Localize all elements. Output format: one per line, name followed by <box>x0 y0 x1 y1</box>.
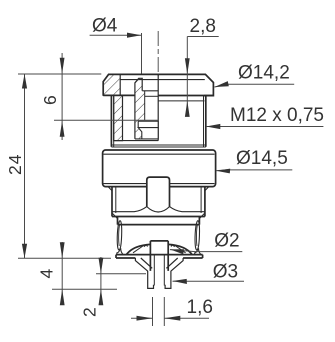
leader Ø14,5 <box>216 169 292 172</box>
thread bottom lines <box>111 144 205 146</box>
dim 2,8 lower arrow <box>185 101 190 117</box>
contact step bottom <box>135 138 158 140</box>
svg-text:24: 24 <box>5 154 25 175</box>
pin tube Ø3 right wall <box>165 271 171 288</box>
contact step 1 <box>138 121 158 127</box>
head secondary edge line <box>120 79 205 81</box>
svg-text:Ø14,5: Ø14,5 <box>236 148 288 169</box>
head top face <box>103 74 213 95</box>
right spring inner line <box>196 224 197 246</box>
section A corner chamfers <box>108 187 209 219</box>
dim 2 bottom arrow <box>99 289 104 305</box>
internal floor <box>114 140 159 142</box>
dome right arc <box>168 244 192 254</box>
pin tube Ø3 left wall <box>148 271 154 288</box>
svg-text:2: 2 <box>80 306 100 317</box>
flange inner top edge <box>104 153 215 155</box>
svg-text:M12 x 0,75: M12 x 0,75 <box>230 105 324 126</box>
leader Ø14,2 arrow <box>215 81 229 87</box>
leader Ø14,2 <box>215 84 295 87</box>
svg-text:Ø14,2: Ø14,2 <box>238 63 290 84</box>
head underside <box>103 94 135 96</box>
dim 4 bottom arrow <box>60 289 65 305</box>
svg-text:6: 6 <box>40 94 60 105</box>
head bottom right half <box>158 95 213 97</box>
dim 2 line <box>100 257 102 305</box>
leader M12 <box>206 126 323 128</box>
svg-text:Ø4: Ø4 <box>92 16 118 37</box>
leader Ø14,5 arrow <box>216 169 230 174</box>
dim 1,6 extension lines <box>152 297 154 326</box>
dim 2,8 vertical line <box>186 37 188 117</box>
leader M12 arrow <box>206 124 220 129</box>
funnel right <box>166 258 183 271</box>
lower body section A <box>112 187 205 217</box>
dim Ø4 arrow <box>127 33 141 38</box>
leader Ø3 arrow <box>173 279 187 284</box>
sleeve section (hatched) <box>135 78 145 139</box>
dim 6 top arrow <box>60 58 65 74</box>
dim 2 top arrow <box>99 258 104 274</box>
contact step 2 <box>138 128 158 139</box>
centerline <box>157 31 159 76</box>
right spring foot <box>195 248 201 254</box>
dim 24 bottom extension line <box>18 257 111 259</box>
bore lower wall <box>144 91 146 121</box>
svg-text:Ø2: Ø2 <box>214 231 239 252</box>
dim 4 line <box>61 242 63 305</box>
leader Ø2 <box>170 250 242 252</box>
left spring lamella <box>117 221 121 250</box>
dim 6 ref line <box>54 119 158 121</box>
leader Ø2 arrow <box>170 249 184 254</box>
flange inner bottom edge <box>104 183 215 185</box>
dim 2,8 label underline <box>187 36 218 38</box>
leader Ø3 <box>173 280 245 282</box>
dim 1,6 left arrow <box>137 316 153 321</box>
left spring inner line <box>119 224 120 246</box>
thread relief line <box>158 100 204 102</box>
dim Ø4 line <box>90 34 142 36</box>
svg-text:Ø3: Ø3 <box>213 262 238 283</box>
sleeve outline <box>135 78 142 139</box>
dim 24 bottom arrow <box>22 244 27 259</box>
dim 24 top extension line <box>18 73 101 75</box>
thread right lines <box>205 96 207 147</box>
right spring lamella <box>195 221 199 250</box>
bottom plate <box>116 255 203 258</box>
dim 24 top arrow <box>22 74 27 89</box>
head flange section (hatched) <box>103 74 120 95</box>
lower body section B <box>118 217 200 225</box>
svg-text:4: 4 <box>37 268 57 279</box>
pin stem Ø2 <box>150 241 168 271</box>
dim 2 ref line <box>96 273 146 275</box>
dim 4/2 bottom ref line <box>52 288 117 290</box>
contact top edge <box>145 95 159 97</box>
dim 2,8 upper arrow <box>185 58 190 74</box>
svg-text:2,8: 2,8 <box>190 16 216 37</box>
channel bottom arc <box>147 207 170 212</box>
dim 4 top arrow <box>60 242 65 258</box>
bore step <box>142 90 158 92</box>
dim 6 line <box>61 53 63 140</box>
thread left lines <box>110 95 112 146</box>
body wall section (hatched) <box>114 95 123 140</box>
funnel left <box>135 258 152 271</box>
dome left arc <box>126 244 150 254</box>
svg-text:1,6: 1,6 <box>187 297 213 318</box>
left spring foot <box>117 248 123 254</box>
center tab <box>147 177 170 207</box>
bore cut edge at centerline <box>157 74 159 140</box>
section A inner lines <box>115 187 117 213</box>
pin stem inner lines <box>153 255 155 286</box>
trapezoid boss <box>112 207 205 212</box>
dome petal lines left <box>133 245 148 253</box>
dim 1,6 right arrow <box>164 316 180 321</box>
dim Ø4 extension line <box>141 33 143 74</box>
flange Ø14,5 outer <box>103 150 216 187</box>
dim 6 bottom arrow <box>60 121 65 137</box>
dim 1,6 line left <box>131 317 153 319</box>
dome petal lines right <box>171 245 186 253</box>
dim 24 line <box>24 74 26 258</box>
dim 1,6 line right <box>164 317 209 319</box>
